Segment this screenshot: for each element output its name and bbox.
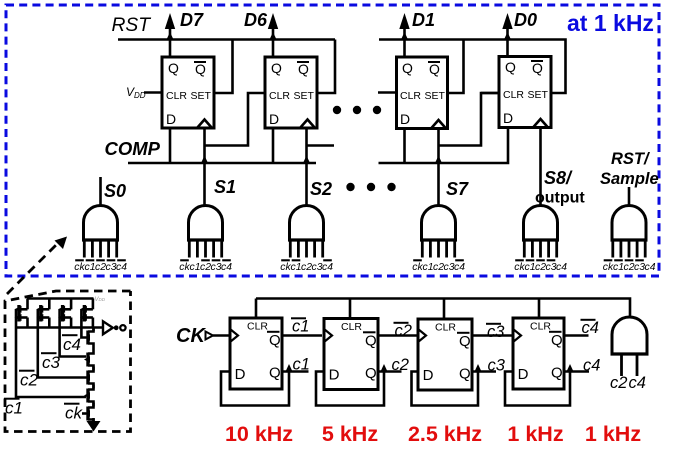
wire U4 CLR left stub to jog bbox=[481, 92, 499, 95]
gate RST (5-input decoder gate) bbox=[603, 206, 656, 274]
CK input port symbol bbox=[206, 332, 214, 340]
wire RST rail left segment bbox=[118, 38, 335, 41]
svg-text:c4: c4 bbox=[582, 319, 599, 337]
gate S8 (5-input decoder gate) bbox=[514, 206, 567, 274]
svg-text:SET: SET bbox=[425, 90, 446, 102]
wire F1 Q output stub (c1) bbox=[282, 370, 309, 373]
node c2bar label bbox=[394, 322, 412, 340]
wire U2 SET to RST rail bbox=[317, 40, 335, 94]
wire U3 clock from gate S7 with arrow at COMP crossing bbox=[435, 129, 442, 206]
wire CK to F1 clock bbox=[213, 334, 230, 337]
ellipsis dots lower row bbox=[346, 183, 395, 191]
svg-text:S7: S7 bbox=[446, 179, 469, 199]
wire COMP line right segment rising to U4 D input bbox=[379, 128, 509, 164]
svg-text:c2: c2 bbox=[395, 322, 412, 340]
node ckbar label in box bbox=[64, 404, 84, 423]
wire F2 D feedback loop bbox=[316, 372, 384, 406]
junction arrow at F4 Q bbox=[566, 364, 573, 372]
wire U1 SET to RST rail bbox=[214, 40, 233, 94]
wire ckbar stub bbox=[82, 412, 86, 415]
svg-text:c4: c4 bbox=[322, 262, 333, 273]
wire NMOS stack top to bus bbox=[92, 328, 95, 332]
svg-text:D: D bbox=[269, 111, 279, 127]
wire F3 Q output stub (c3) bbox=[472, 370, 496, 373]
svg-text:D: D bbox=[166, 111, 176, 127]
svg-text:Q: Q bbox=[402, 60, 413, 76]
node c3bar label in box bbox=[41, 353, 61, 372]
wire U3 SET to RST rail bbox=[448, 40, 464, 94]
wire F1 Qbar output (c1 bar) bbox=[282, 334, 322, 337]
wire CLR rail from AND gate output bbox=[256, 299, 630, 318]
svg-text:RST: RST bbox=[112, 15, 152, 36]
node c3bar label bbox=[486, 323, 505, 341]
svg-text:c2: c2 bbox=[20, 371, 39, 390]
wire F3 D feedback loop bbox=[412, 372, 479, 406]
transistor P3 PMOS bbox=[58, 299, 71, 328]
svg-text:c1: c1 bbox=[613, 262, 624, 273]
svg-text:c4: c4 bbox=[629, 374, 646, 392]
node c2bar label in box bbox=[19, 371, 39, 390]
junction arrow at F1 Q bbox=[285, 364, 292, 372]
svg-text:c1: c1 bbox=[5, 399, 23, 418]
gate S2 (5-input decoder gate) bbox=[280, 206, 333, 274]
wire RST/Sample gate output stub bbox=[628, 187, 631, 206]
wire CLR drop to F4 bbox=[538, 299, 541, 319]
svg-text:D1: D1 bbox=[412, 10, 435, 30]
wire F2 Qbar output (c2 bar) bbox=[378, 334, 418, 337]
svg-text:D6: D6 bbox=[244, 10, 268, 30]
transistor P2 PMOS bbox=[36, 299, 49, 328]
svg-text:ck: ck bbox=[65, 404, 84, 423]
node D0 output arrow bbox=[502, 10, 537, 57]
svg-text:S0: S0 bbox=[104, 181, 126, 201]
svg-text:Q: Q bbox=[365, 332, 377, 349]
flip-flop U4 (D0) bbox=[499, 57, 551, 128]
junction arrow at F2 Q bbox=[380, 364, 387, 372]
svg-text:D: D bbox=[503, 110, 513, 126]
svg-text:D: D bbox=[329, 366, 340, 383]
node c4bar label in box bbox=[62, 335, 81, 354]
wire U2 clock node stub toward hidden stage bbox=[307, 144, 335, 147]
gate S1 (5-input decoder gate) bbox=[179, 206, 232, 274]
svg-text:Sample: Sample bbox=[600, 170, 659, 188]
svg-text:c2: c2 bbox=[392, 356, 409, 374]
svg-text:5 kHz: 5 kHz bbox=[322, 422, 378, 446]
svg-text:c1: c1 bbox=[85, 262, 96, 273]
wire gate route of P2 bbox=[38, 309, 86, 377]
node D6 output arrow bbox=[244, 10, 278, 57]
svg-text:c2: c2 bbox=[610, 374, 627, 392]
wire U2 clock from gate S2 with arrow at COMP crossing bbox=[303, 128, 310, 206]
transistor N3 NMOS bbox=[84, 367, 94, 389]
svg-text:CLR: CLR bbox=[435, 321, 456, 333]
wire U1 D input to COMP line bbox=[169, 128, 172, 163]
wire gate route of P1 bbox=[16, 309, 86, 397]
svg-text:D7: D7 bbox=[180, 10, 204, 30]
svg-text:D: D bbox=[518, 366, 529, 383]
svg-text:S8/: S8/ bbox=[544, 168, 573, 188]
svg-text:c1: c1 bbox=[190, 262, 201, 273]
svg-text:S2: S2 bbox=[310, 179, 332, 199]
svg-text:Q: Q bbox=[269, 332, 281, 349]
svg-text:Q: Q bbox=[195, 61, 206, 77]
wire F1 D feedback loop bbox=[221, 372, 289, 406]
node D1 output arrow bbox=[399, 10, 435, 57]
svg-text:SET: SET bbox=[528, 89, 549, 101]
gate S0 (5-input decoder gate) bbox=[74, 206, 127, 274]
wire U4 clock from gate S8 bbox=[539, 128, 542, 206]
dashed arrow pointing to gate S0 bbox=[7, 237, 67, 295]
svg-text:Q: Q bbox=[551, 332, 563, 349]
flip-flop U1 (D7) bbox=[162, 57, 214, 128]
flip-flop U3 (D1) bbox=[397, 57, 448, 129]
junction arrow at F3 Q bbox=[474, 364, 481, 372]
node c1bar label bbox=[291, 318, 309, 336]
node D7 output arrow bbox=[165, 10, 204, 57]
svg-text:CLR: CLR bbox=[166, 90, 187, 102]
svg-text:c3: c3 bbox=[488, 357, 506, 375]
wire U1 clock node to U2 CLR bbox=[205, 93, 266, 146]
svg-text:Q: Q bbox=[459, 333, 471, 350]
svg-text:Q: Q bbox=[269, 365, 281, 382]
svg-text:c4: c4 bbox=[454, 262, 465, 273]
gate S7 (5-input decoder gate) bbox=[412, 206, 465, 274]
flip-flop F2 (divide-by-2) bbox=[324, 319, 378, 390]
svg-text:c4: c4 bbox=[645, 262, 656, 273]
svg-text:output: output bbox=[535, 190, 585, 207]
transistor N4 NMOS bbox=[84, 385, 94, 407]
blue dashed frame of clock-phase generator block bbox=[6, 5, 659, 276]
wire F4 Qbar output (c4 bar) bbox=[564, 334, 589, 337]
wire U2 D input to COMP line bbox=[272, 128, 275, 163]
svg-text:Q: Q bbox=[532, 60, 543, 76]
svg-text:1 kHz: 1 kHz bbox=[585, 422, 641, 446]
svg-text:Q: Q bbox=[168, 60, 179, 76]
svg-text:CLR: CLR bbox=[530, 320, 551, 332]
transistor N2 NMOS bbox=[84, 349, 94, 371]
wire F4 D feedback loop bbox=[505, 372, 570, 406]
node c4bar label bbox=[581, 319, 599, 337]
svg-text:c4: c4 bbox=[556, 262, 567, 273]
svg-text:Q: Q bbox=[429, 61, 440, 77]
svg-text:1 kHz: 1 kHz bbox=[507, 422, 563, 446]
wire U1 clock from gate S1 with arrow at COMP crossing bbox=[201, 128, 208, 206]
svg-text:c4: c4 bbox=[63, 335, 81, 354]
wire F2 Q output stub (c2) bbox=[378, 370, 402, 373]
power rail VDD of NAND bbox=[27, 297, 94, 300]
transistor N5 NMOS bbox=[84, 403, 94, 425]
transistor N1 NMOS bbox=[84, 328, 94, 349]
gate S0 output stub bbox=[99, 177, 102, 206]
wire U3 clock node to U4 CLR bbox=[439, 93, 500, 146]
wire NAND output bus bbox=[17, 326, 104, 329]
flip-flop F3 (divide-by-2) bbox=[418, 319, 472, 390]
wire gate route of P4 bbox=[81, 309, 86, 337]
svg-text:c3: c3 bbox=[42, 353, 61, 372]
flip-flop F4 (divide-by-2) bbox=[513, 318, 564, 389]
wire F3 Qbar output (c3 bar) bbox=[472, 334, 513, 337]
svg-text:CLR: CLR bbox=[269, 90, 290, 102]
svg-text:COMP: COMP bbox=[105, 138, 161, 159]
svg-text:at 1 kHz: at 1 kHz bbox=[567, 10, 654, 36]
svg-text:Q: Q bbox=[505, 59, 516, 75]
flip-flop F1 (divide-by-2) bbox=[230, 318, 282, 389]
svg-text:S1: S1 bbox=[214, 177, 236, 197]
node c1bar label in box bbox=[4, 399, 23, 418]
svg-text:c4: c4 bbox=[116, 262, 127, 273]
svg-text:CLR: CLR bbox=[341, 321, 362, 333]
svg-text:CLR: CLR bbox=[503, 89, 524, 101]
svg-text:c1: c1 bbox=[291, 262, 302, 273]
svg-text:SET: SET bbox=[191, 90, 212, 102]
inverter I1 bbox=[103, 321, 126, 334]
wire gate route of P3 bbox=[60, 309, 86, 356]
svg-text:D: D bbox=[423, 367, 434, 384]
svg-text:c1: c1 bbox=[293, 356, 310, 374]
ground symbol bbox=[87, 418, 101, 432]
wire F4 Q output stub (c4) bbox=[564, 370, 589, 373]
svg-text:D0: D0 bbox=[514, 10, 537, 30]
svg-text:2.5 kHz: 2.5 kHz bbox=[408, 422, 482, 446]
svg-text:Q: Q bbox=[298, 61, 309, 77]
svg-text:Q: Q bbox=[551, 365, 563, 382]
wire CLR drop to F2 bbox=[349, 299, 352, 319]
transistor P1 PMOS bbox=[15, 299, 28, 328]
wire CLR drop to F3 bbox=[443, 299, 446, 320]
svg-text:c1: c1 bbox=[423, 262, 434, 273]
flip-flop U2 (D6) bbox=[265, 57, 317, 128]
svg-text:c1: c1 bbox=[292, 318, 309, 336]
ellipsis dots upper row bbox=[333, 106, 381, 114]
svg-text:Q: Q bbox=[271, 60, 282, 76]
wire U3 D input to COMP line bbox=[403, 129, 406, 164]
gate A1 AND (c2·c4) bbox=[611, 317, 649, 376]
svg-text:SET: SET bbox=[294, 90, 315, 102]
svg-text:CLR: CLR bbox=[247, 320, 268, 332]
svg-text:Q: Q bbox=[459, 366, 471, 383]
wire RST rail right segment ending at FF D0 SET bbox=[379, 40, 566, 94]
svg-text:c4: c4 bbox=[221, 262, 232, 273]
wire CLR drop to F1 bbox=[255, 299, 258, 319]
power VDD to U1 CLR bbox=[126, 85, 162, 100]
node S8/output label bbox=[535, 168, 585, 207]
node RST/Sample label bbox=[600, 150, 659, 188]
svg-text:D: D bbox=[400, 111, 410, 127]
svg-text:D: D bbox=[235, 366, 246, 383]
svg-text:Q: Q bbox=[365, 365, 377, 382]
svg-text:c3: c3 bbox=[487, 323, 505, 341]
svg-text:CLR: CLR bbox=[400, 90, 421, 102]
svg-text:c1: c1 bbox=[525, 262, 536, 273]
wire COMP line left segment bbox=[128, 162, 316, 165]
svg-text:RST/: RST/ bbox=[611, 150, 651, 168]
svg-text:CK: CK bbox=[176, 325, 206, 347]
transistor P4 PMOS bbox=[80, 299, 93, 328]
dashed box of transistor-level S0 gate implementation bbox=[5, 291, 131, 432]
svg-text:10 kHz: 10 kHz bbox=[225, 422, 293, 446]
svg-text:c4: c4 bbox=[583, 357, 600, 375]
wire U3 CLR stub bbox=[378, 91, 397, 94]
